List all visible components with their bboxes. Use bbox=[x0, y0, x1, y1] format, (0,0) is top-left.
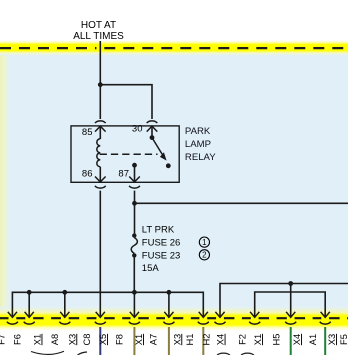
wire pin 86 to module connector bbox=[99, 191, 101, 318]
wire bus right upper bbox=[220, 284, 348, 318]
svg-text:FUSE 26: FUSE 26 bbox=[142, 238, 181, 249]
svg-text:A1: A1 bbox=[308, 334, 318, 345]
node junction at fuse top bbox=[132, 201, 137, 206]
svg-text:LAMP: LAMP bbox=[185, 139, 211, 150]
wire stub color #8a7d3e bbox=[168, 327, 170, 355]
svg-text:X4: X4 bbox=[216, 334, 226, 345]
svg-text:2: 2 bbox=[202, 251, 207, 260]
svg-text:FUSE 23: FUSE 23 bbox=[142, 250, 181, 261]
connector module pin at x=134.4 bbox=[130, 312, 139, 318]
node junction feed split bbox=[98, 82, 103, 87]
connector module pin at x=100.3 bbox=[96, 312, 105, 318]
relay switch arm bbox=[150, 135, 155, 140]
svg-text:F2: F2 bbox=[237, 334, 247, 345]
connector module pin at x=254.7 bbox=[250, 312, 259, 318]
wire stub color #323a78 bbox=[99, 327, 101, 355]
svg-text:F8: F8 bbox=[114, 334, 124, 345]
svg-text:A7: A7 bbox=[149, 334, 159, 345]
svg-text:ALL TIMES: ALL TIMES bbox=[73, 31, 124, 42]
svg-text:X4: X4 bbox=[292, 334, 302, 345]
connector module pin at x=290.7 bbox=[286, 312, 295, 318]
bottom group arc B bbox=[78, 352, 88, 355]
bottom group arc A bbox=[31, 351, 64, 354]
connector female at relay pin 85 top bbox=[95, 121, 106, 123]
svg-text:H1: H1 bbox=[185, 334, 195, 346]
svg-text:LT PRK: LT PRK bbox=[142, 225, 175, 236]
relay pin 87 bbox=[132, 163, 137, 168]
connector module pin at x=220.0 bbox=[215, 312, 224, 318]
svg-text:30: 30 bbox=[132, 123, 143, 134]
callout 2 bbox=[199, 250, 209, 260]
svg-text:PARK: PARK bbox=[185, 126, 211, 137]
svg-text:F6: F6 bbox=[13, 334, 23, 345]
svg-text:X3: X3 bbox=[327, 334, 337, 345]
connector module pin at x=203.3 bbox=[199, 312, 208, 318]
svg-text:A8: A8 bbox=[50, 334, 60, 345]
relay pin 85 bbox=[95, 126, 106, 131]
svg-text:C8: C8 bbox=[82, 334, 92, 346]
wire stub color #1f8038 bbox=[290, 327, 292, 355]
wire dashed boundary bottom bbox=[0, 317, 9, 319]
svg-text:H5: H5 bbox=[272, 334, 282, 346]
relay pin 30 bbox=[147, 126, 158, 131]
connector module pin at x=29.2 bbox=[25, 312, 34, 318]
svg-text:F5: F5 bbox=[339, 334, 348, 345]
wire branch to pin 30 bbox=[100, 85, 152, 119]
relay K1 PARK LAMP RELAY box bbox=[71, 126, 179, 182]
connector female below relay pin 87 bbox=[129, 186, 140, 188]
svg-text:RELAY: RELAY bbox=[185, 152, 216, 163]
connector female below relay pin 86 bbox=[95, 186, 106, 188]
svg-text:X1: X1 bbox=[253, 334, 263, 345]
svg-text:85: 85 bbox=[82, 127, 93, 138]
node junction bus1 x=64.8 bbox=[62, 290, 67, 295]
svg-text:HOT AT: HOT AT bbox=[81, 20, 116, 31]
wire bus right lower bbox=[255, 292, 326, 317]
fuse F26/F23 LT PRK 15A bbox=[132, 233, 136, 237]
connector female at relay pin 30 top bbox=[147, 121, 158, 123]
wire dashed boundary top bbox=[0, 47, 96, 49]
wire bus left distribution bbox=[12, 292, 203, 317]
svg-text:86: 86 bbox=[82, 169, 93, 180]
svg-text:15A: 15A bbox=[142, 263, 160, 274]
wire branch right off page bbox=[135, 202, 348, 204]
wire stub color #1f8038 bbox=[324, 327, 326, 355]
svg-text:X1: X1 bbox=[33, 334, 43, 345]
svg-text:X3: X3 bbox=[172, 334, 182, 345]
relay switch contact bbox=[166, 163, 171, 168]
connector module pin at x=168.9 bbox=[164, 312, 173, 318]
wire stub color #8a7d3e bbox=[133, 327, 135, 355]
wire main feed from HOT AT ALL TIMES bbox=[99, 41, 101, 119]
node junction bus1 x=168.9 bbox=[167, 290, 172, 295]
svg-text:X3: X3 bbox=[67, 334, 77, 345]
connector module pin at x=325.2 bbox=[321, 312, 330, 318]
wire stub color #8a7d3e bbox=[202, 327, 204, 355]
bottom group arc C bbox=[217, 353, 230, 355]
node junction bus1 x=134.4 bbox=[132, 290, 137, 295]
connector module pin at x=64.8 bbox=[60, 312, 69, 318]
bottom group arc D bbox=[241, 353, 254, 355]
wire fuse to bus bbox=[133, 255, 135, 292]
connector module pin at x=12.4 bbox=[8, 312, 17, 318]
svg-text:X5: X5 bbox=[98, 334, 108, 345]
svg-text:1: 1 bbox=[202, 238, 207, 247]
wire pin 87 down bbox=[134, 191, 136, 236]
callout 1 bbox=[199, 237, 209, 247]
node junction bus2 bbox=[288, 281, 293, 286]
relay armature dashed link bbox=[100, 153, 158, 155]
relay coil between 85 and 86 bbox=[97, 139, 101, 167]
svg-text:87: 87 bbox=[118, 169, 129, 180]
svg-text:H2: H2 bbox=[202, 334, 212, 346]
svg-text:F7: F7 bbox=[0, 334, 6, 345]
svg-text:X1: X1 bbox=[134, 334, 144, 345]
node junction bus1 x=29.2 bbox=[27, 290, 32, 295]
relay pin 86 bbox=[99, 167, 101, 182]
